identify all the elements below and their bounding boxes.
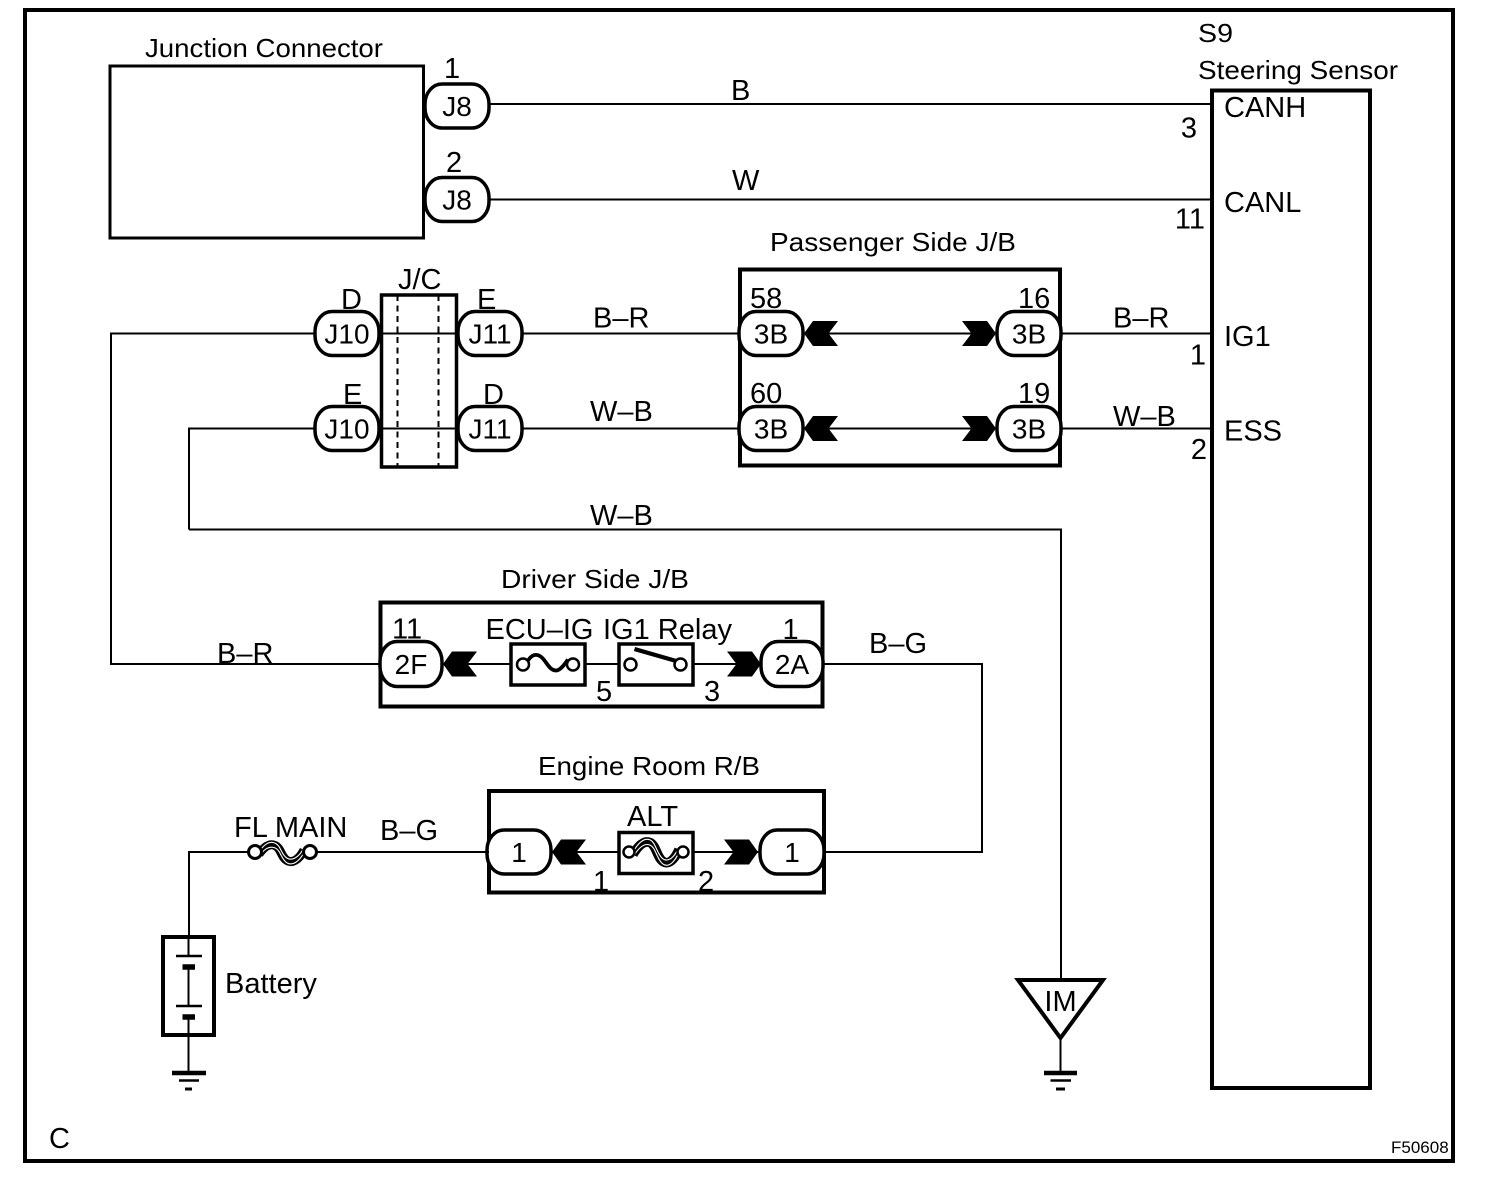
svg-text:J11: J11 <box>468 319 511 350</box>
wire W-B passenger JB to ESS pin 2 <box>1060 428 1212 430</box>
svg-text:B–G: B–G <box>380 815 438 847</box>
svg-text:IG1 Relay: IG1 Relay <box>603 614 732 646</box>
svg-text:11: 11 <box>1175 204 1205 236</box>
arrow right driver JB <box>727 652 761 677</box>
wire B-G from 2A down to engine room RB <box>823 664 982 852</box>
arrow left driver JB <box>443 652 477 677</box>
passenger side J/B box <box>740 270 1060 466</box>
connector J10 row2 oval <box>315 407 379 451</box>
svg-text:J10: J10 <box>324 319 369 350</box>
svg-text:FL MAIN: FL MAIN <box>234 812 347 844</box>
connector 3B 19 oval <box>997 407 1061 451</box>
svg-text:B–R: B–R <box>593 303 649 335</box>
wire IM to ground <box>1060 1038 1062 1071</box>
connector J8 pin 1 oval <box>425 84 489 128</box>
svg-text:W: W <box>732 165 760 197</box>
arrow right engine RB <box>724 840 758 865</box>
svg-text:W–B: W–B <box>590 396 653 428</box>
svg-text:3B: 3B <box>754 319 788 350</box>
svg-text:CANL: CANL <box>1224 187 1301 219</box>
fuse ALT fusible link symbol <box>624 839 689 865</box>
svg-text:Driver Side J/B: Driver Side J/B <box>501 564 689 594</box>
svg-text:CANH: CANH <box>1224 92 1306 124</box>
svg-text:2A: 2A <box>775 649 810 680</box>
svg-text:F50608: F50608 <box>1391 1138 1449 1157</box>
svg-text:IG1: IG1 <box>1224 321 1271 353</box>
connector 3B 16 oval <box>997 312 1061 356</box>
J/C box <box>382 295 457 467</box>
svg-text:3B: 3B <box>1012 414 1046 445</box>
battery internal plates <box>176 937 202 1017</box>
svg-text:1: 1 <box>593 866 609 898</box>
svg-text:Junction Connector: Junction Connector <box>145 33 383 63</box>
relay IG1 box <box>619 644 693 685</box>
wire inside engine RB <box>519 851 624 853</box>
svg-text:B–R: B–R <box>1113 303 1169 335</box>
fusible link FL MAIN symbol <box>249 842 317 864</box>
svg-text:J8: J8 <box>442 185 472 216</box>
wire W-B row: left vertical down to long W-B wire <box>189 429 315 530</box>
arrow left row2 <box>804 416 838 441</box>
svg-text:3B: 3B <box>754 414 788 445</box>
connector 3B 60 oval <box>739 407 803 451</box>
wire B-R row: left vertical down to driver JB <box>111 334 380 665</box>
connector 1 right oval <box>760 830 824 874</box>
wire inside passenger row1 <box>771 333 1029 335</box>
junction connector box <box>110 66 424 238</box>
svg-text:2: 2 <box>1191 434 1207 466</box>
svg-text:3B: 3B <box>1012 319 1046 350</box>
wire long W-B to ground IM <box>189 530 1061 981</box>
fuse ALT box <box>619 833 693 874</box>
svg-text:W–B: W–B <box>590 500 653 532</box>
svg-text:1: 1 <box>511 837 527 868</box>
svg-text:5: 5 <box>596 676 612 708</box>
wire B J8-1 to CANH pin 3 <box>489 103 1212 105</box>
svg-text:Engine Room R/B: Engine Room R/B <box>538 751 760 781</box>
svg-text:2F: 2F <box>395 649 428 680</box>
ground IM <box>1044 1073 1077 1089</box>
svg-text:1: 1 <box>444 53 460 85</box>
svg-text:ECU–IG: ECU–IG <box>486 614 594 646</box>
svg-text:Battery: Battery <box>225 968 317 1000</box>
connector J10 row1 oval <box>315 312 379 356</box>
engine room R/B box <box>489 791 824 893</box>
svg-text:1: 1 <box>784 837 800 868</box>
wire W-B through J/C <box>379 428 740 430</box>
svg-text:3: 3 <box>704 676 720 708</box>
wire W J8-2 to CANL pin 11 <box>489 199 1212 201</box>
fuse ECU-IG symbol <box>517 655 579 671</box>
connector 2F oval <box>380 642 442 687</box>
svg-text:ESS: ESS <box>1224 416 1282 448</box>
svg-text:B–R: B–R <box>217 638 273 670</box>
driver side J/B box <box>381 603 823 707</box>
svg-text:Steering Sensor: Steering Sensor <box>1198 55 1398 85</box>
svg-text:Passenger Side J/B: Passenger Side J/B <box>770 227 1016 257</box>
ground point IM triangle <box>1018 980 1103 1038</box>
svg-text:3: 3 <box>1181 113 1197 145</box>
wire B-R passenger JB to IG1 pin 1 <box>1060 333 1212 335</box>
wire B-R through J/C <box>379 333 740 335</box>
svg-text:J11: J11 <box>468 414 511 445</box>
connector 1 left oval <box>487 830 551 874</box>
svg-text:2: 2 <box>698 866 714 898</box>
connector J11 row1 oval <box>458 312 522 356</box>
svg-text:S9: S9 <box>1198 18 1233 48</box>
arrow left row1 <box>804 321 838 346</box>
fuse ECU-IG box <box>511 644 585 685</box>
svg-text:2: 2 <box>446 147 462 179</box>
arrow left engine RB <box>552 840 586 865</box>
J/C dashed line left <box>397 295 399 467</box>
svg-text:J8: J8 <box>442 91 472 122</box>
svg-text:W–B: W–B <box>1113 401 1176 433</box>
svg-text:J/C: J/C <box>398 264 442 296</box>
arrow right row2 <box>962 416 996 441</box>
ground battery <box>172 1073 206 1089</box>
relay IG1 contacts and blade <box>625 649 687 671</box>
wire battery to ground <box>188 1017 190 1071</box>
wire battery to FL MAIN to engine RB <box>189 852 250 937</box>
svg-text:IM: IM <box>1044 986 1076 1018</box>
wire inside passenger row2 <box>771 428 1029 430</box>
svg-text:B–G: B–G <box>869 628 927 660</box>
connector 3B 58 oval <box>739 312 803 356</box>
arrow right row1 <box>962 321 996 346</box>
connector J11 row2 oval <box>458 407 522 451</box>
battery box <box>163 937 214 1035</box>
svg-text:ALT: ALT <box>627 801 678 833</box>
svg-text:J10: J10 <box>324 414 369 445</box>
connector 2A oval <box>761 642 823 687</box>
wire inside driver JB <box>411 663 634 665</box>
J/C dashed line right <box>438 295 440 467</box>
svg-text:B: B <box>731 75 750 107</box>
steering sensor box <box>1212 91 1370 1089</box>
connector J8 pin 2 oval <box>425 178 489 222</box>
svg-text:C: C <box>49 1123 70 1155</box>
svg-text:1: 1 <box>1190 340 1206 372</box>
